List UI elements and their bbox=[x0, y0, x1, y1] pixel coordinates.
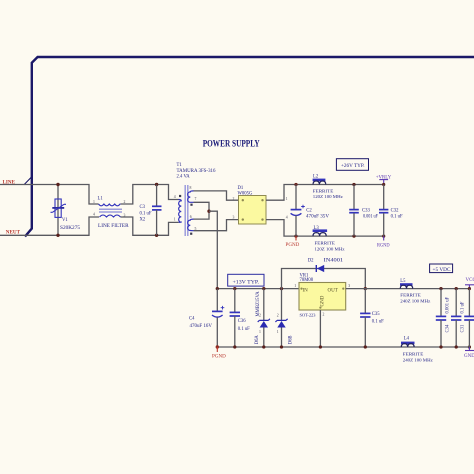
junction C34 top bbox=[439, 287, 442, 290]
choke L1 bottom winding bbox=[100, 215, 121, 217]
junction C3 top bbox=[155, 183, 158, 186]
svg-text:+VRLY: +VRLY bbox=[376, 176, 392, 181]
svg-text:C4: C4 bbox=[189, 317, 195, 322]
svg-text:FERRITE: FERRITE bbox=[400, 292, 421, 297]
svg-text:2: 2 bbox=[233, 197, 235, 201]
svg-text:L2: L2 bbox=[313, 174, 319, 179]
ground PGND (bridge) bbox=[286, 236, 300, 248]
svg-text:C36: C36 bbox=[238, 319, 246, 324]
junction VCC bottom bbox=[468, 345, 471, 348]
svg-text:T1: T1 bbox=[177, 163, 183, 168]
svg-text:FERRITE: FERRITE bbox=[403, 352, 424, 357]
svg-text:D2: D2 bbox=[308, 258, 314, 263]
junction RGND bottom bbox=[382, 235, 385, 238]
wire D1 pin4 to bottom rail bbox=[266, 220, 384, 237]
svg-text:FERRITE: FERRITE bbox=[315, 241, 336, 246]
svg-text:120Z 100 MHz: 120Z 100 MHz bbox=[313, 194, 343, 199]
callout box +26V TYP. bbox=[336, 159, 368, 171]
wire D1 pin1 to top rail bbox=[266, 185, 384, 201]
wire L1 pin3 to bottom rail bbox=[121, 217, 153, 235]
svg-text:POWER SUPPLY: POWER SUPPLY bbox=[203, 138, 260, 148]
wire VR1 GND pin bbox=[319, 310, 321, 347]
junction C34 bottom bbox=[439, 345, 442, 348]
capacitor C3 bbox=[152, 185, 162, 236]
junction D6B top bbox=[280, 287, 283, 290]
junction C2 bottom bbox=[294, 234, 297, 237]
junction VR1 GND bottom bbox=[319, 345, 322, 348]
wire IN rail bbox=[217, 288, 299, 290]
zener diode D6B bbox=[275, 289, 287, 347]
svg-text:PGND: PGND bbox=[212, 354, 226, 359]
svg-text:IN: IN bbox=[303, 288, 309, 293]
polarity dot primary bbox=[179, 195, 181, 197]
svg-text:0.1 uF: 0.1 uF bbox=[238, 327, 250, 332]
svg-text:+26V TYP.: +26V TYP. bbox=[341, 164, 365, 169]
junction C2 top bbox=[294, 183, 297, 186]
wire D2 branch bbox=[282, 269, 366, 289]
svg-text:1: 1 bbox=[294, 284, 296, 288]
svg-text:1: 1 bbox=[259, 330, 261, 334]
ferrite bead L4 bbox=[401, 342, 415, 347]
wire T1 pin8 to D1 pin2 bbox=[194, 191, 239, 200]
svg-text:TAMURA 3FS-316: TAMURA 3FS-316 bbox=[177, 169, 217, 174]
capacitor C30 (edge) bbox=[464, 289, 474, 347]
capacitor C35 bbox=[360, 289, 370, 347]
svg-text:1: 1 bbox=[286, 197, 288, 201]
svg-text:C33: C33 bbox=[362, 209, 370, 214]
svg-text:2: 2 bbox=[277, 314, 279, 318]
svg-text:0.1 uF: 0.1 uF bbox=[391, 215, 403, 220]
svg-text:V1: V1 bbox=[62, 218, 68, 223]
wire bottom rail bbox=[217, 346, 469, 348]
wire OUT rail bbox=[346, 288, 470, 290]
capacitor C31 bbox=[451, 289, 461, 347]
svg-text:0.1 uF: 0.1 uF bbox=[140, 212, 152, 217]
svg-text:MMBZ15VA: MMBZ15VA bbox=[256, 291, 261, 317]
junction center tap bbox=[207, 210, 210, 213]
pin marker D1 out4 bbox=[261, 218, 263, 220]
wire L1 pin2 to top rail bbox=[121, 185, 152, 205]
ferrite bead L5 bbox=[400, 283, 413, 288]
svg-text:VCC: VCC bbox=[466, 278, 474, 283]
diode D2 bbox=[316, 265, 324, 272]
svg-text:L3: L3 bbox=[314, 226, 320, 231]
bus entry LINE bbox=[24, 177, 32, 185]
svg-text:D1: D1 bbox=[238, 186, 244, 191]
pin marker VR1 IN bbox=[300, 288, 302, 290]
svg-text:0.001 uF: 0.001 uF bbox=[446, 296, 451, 313]
svg-text:2: 2 bbox=[323, 313, 325, 317]
ground PGND (lower) bbox=[212, 347, 226, 359]
svg-text:78M08: 78M08 bbox=[300, 278, 314, 283]
junction D2-C35 bbox=[364, 287, 367, 290]
svg-text:C3: C3 bbox=[140, 205, 146, 210]
svg-text:RGND: RGND bbox=[377, 244, 390, 249]
junction C4 top bbox=[216, 287, 219, 290]
svg-text:120Z 100 MHz: 120Z 100 MHz bbox=[315, 246, 345, 251]
svg-text:C32: C32 bbox=[391, 209, 399, 214]
svg-text:GND: GND bbox=[321, 295, 326, 306]
svg-text:X2: X2 bbox=[140, 218, 146, 223]
junction C31 bottom bbox=[455, 345, 458, 348]
svg-text:D6A: D6A bbox=[255, 335, 260, 345]
svg-text:+13V TYP.: +13V TYP. bbox=[233, 281, 260, 286]
varistor V1 bbox=[51, 199, 67, 217]
wire NEUT rail bbox=[0, 217, 99, 235]
svg-text:6: 6 bbox=[190, 215, 192, 219]
transformer T1 primary winding bbox=[179, 200, 182, 223]
junction D6B bottom bbox=[280, 345, 283, 348]
pin marker D1 out1 bbox=[261, 199, 263, 201]
svg-text:3: 3 bbox=[348, 284, 350, 288]
svg-text:C35: C35 bbox=[372, 312, 380, 317]
junction VCC rail bbox=[468, 287, 471, 290]
svg-text:4: 4 bbox=[174, 195, 176, 199]
junction C33 bottom bbox=[352, 234, 355, 237]
junction D6A bottom bbox=[262, 345, 265, 348]
callout box +5 VDC bbox=[430, 264, 453, 273]
junction NEUT-V1 bbox=[56, 234, 59, 237]
polarity dot secondary top bbox=[190, 204, 192, 206]
choke L1 core bbox=[99, 208, 122, 210]
pin marker D1 in3 bbox=[242, 218, 244, 220]
junction C36 top bbox=[233, 287, 236, 290]
zener diode D6A bbox=[258, 289, 270, 347]
svg-text:L5: L5 bbox=[400, 279, 406, 284]
svg-text:1: 1 bbox=[93, 200, 95, 204]
svg-text:1: 1 bbox=[277, 330, 279, 334]
wire bottom rail C3 to T1 bbox=[152, 222, 179, 235]
regulator VR1 bbox=[299, 283, 346, 311]
transformer T1 secondary top winding bbox=[188, 191, 194, 202]
svg-text:4: 4 bbox=[286, 215, 288, 219]
svg-text:PGND: PGND bbox=[286, 243, 300, 248]
pin marker VR1 OUT bbox=[342, 288, 344, 290]
svg-text:3: 3 bbox=[233, 215, 235, 219]
capacitor C33 bbox=[349, 185, 359, 237]
ferrite bead L3 bbox=[313, 229, 328, 236]
capacitor C36 bbox=[230, 289, 240, 347]
transformer T1 core bbox=[184, 185, 186, 236]
ferrite bead L2 bbox=[313, 179, 326, 185]
capacitor C32 bbox=[379, 185, 388, 237]
svg-text:IN4001: IN4001 bbox=[324, 258, 344, 263]
svg-text:0.1 uF: 0.1 uF bbox=[461, 301, 466, 313]
wire T1 pin5 to D1 pin3 bbox=[194, 220, 239, 231]
svg-text:C34: C34 bbox=[446, 324, 451, 332]
svg-text:SOT-223: SOT-223 bbox=[300, 313, 317, 318]
junction C3 bottom bbox=[155, 234, 158, 237]
bridge rectifier D1 bbox=[239, 196, 267, 225]
ground RGND bbox=[377, 236, 390, 249]
bus (thick) bbox=[25, 57, 474, 237]
svg-text:L4: L4 bbox=[404, 336, 410, 341]
wire top rail C3 to T1 bbox=[152, 185, 179, 200]
svg-text:GND: GND bbox=[464, 354, 474, 359]
junction C36 bottom bbox=[233, 345, 236, 348]
svg-text:470uF 35V: 470uF 35V bbox=[306, 215, 330, 220]
junction D6A top bbox=[262, 287, 265, 290]
transformer T1 secondary bottom winding bbox=[188, 219, 194, 231]
wire V1 vertical bbox=[57, 185, 59, 236]
choke L1 top winding bbox=[99, 204, 121, 206]
junction LINE-V1 bbox=[56, 183, 59, 186]
svg-text:C31: C31 bbox=[461, 324, 466, 332]
junction C35 bottom bbox=[364, 345, 367, 348]
junction C31 top bbox=[455, 287, 458, 290]
svg-text:470uF 16V: 470uF 16V bbox=[190, 324, 213, 329]
svg-text:240Z 100 MHz: 240Z 100 MHz bbox=[400, 299, 430, 304]
wire T1 pin7 to center tap bbox=[194, 202, 210, 219]
capacitor C34 bbox=[436, 289, 446, 347]
pin marker VR1 GND bbox=[319, 307, 321, 309]
svg-text:D6B: D6B bbox=[289, 335, 294, 344]
svg-text:FERRITE: FERRITE bbox=[313, 188, 334, 193]
junction PGND bottom bbox=[216, 345, 219, 348]
callout box +13V TYP. bbox=[228, 274, 264, 286]
svg-text:8: 8 bbox=[190, 186, 192, 190]
svg-text:7: 7 bbox=[195, 197, 197, 201]
ground GND bbox=[464, 347, 474, 359]
wire LINE rail bbox=[0, 185, 99, 205]
pin marker D1 in2 bbox=[242, 199, 244, 201]
capacitor C4 (polarized) bbox=[212, 289, 224, 347]
power symbol +VRLY bbox=[379, 180, 388, 185]
svg-text:W005G: W005G bbox=[238, 192, 253, 197]
svg-text:C2: C2 bbox=[306, 209, 312, 214]
svg-text:240Z 100 MHz: 240Z 100 MHz bbox=[403, 358, 433, 363]
power symbol VCC bbox=[465, 285, 474, 289]
capacitor C2 (polarized) bbox=[291, 185, 305, 237]
svg-text:LINE FILTER: LINE FILTER bbox=[98, 223, 129, 229]
polarity dot secondary bottom bbox=[190, 233, 192, 235]
svg-text:2.4 VA: 2.4 VA bbox=[177, 175, 191, 180]
svg-text:1: 1 bbox=[174, 218, 176, 222]
svg-text:0.001 uF: 0.001 uF bbox=[363, 215, 378, 220]
svg-text:OUT: OUT bbox=[328, 288, 338, 293]
svg-text:0.1 uF: 0.1 uF bbox=[372, 320, 384, 325]
svg-text:L1: L1 bbox=[98, 197, 104, 202]
svg-text:S20K275: S20K275 bbox=[60, 226, 81, 231]
svg-text:+5 VDC: +5 VDC bbox=[433, 268, 451, 273]
junction C33 top bbox=[352, 183, 355, 186]
wire center tap down bbox=[209, 211, 217, 288]
svg-text:4: 4 bbox=[93, 213, 95, 217]
junction VRLY top bbox=[382, 183, 385, 186]
